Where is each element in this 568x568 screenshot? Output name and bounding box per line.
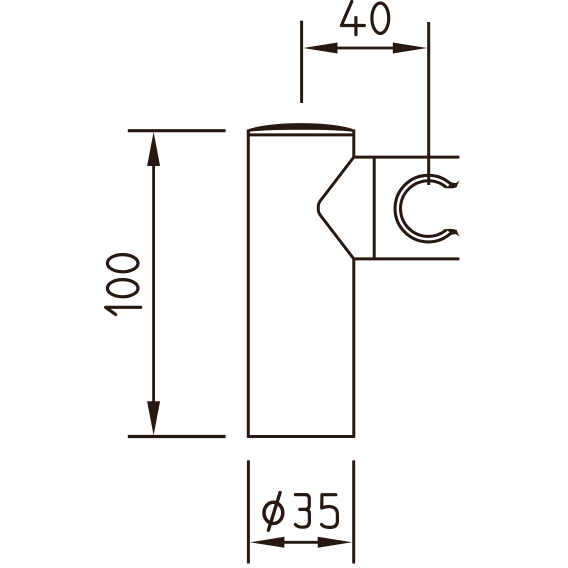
digit 4 of 40 [341,2,364,35]
digit 0 of 40 [372,3,389,33]
bracket bottom line [354,257,460,260]
second digit 0 of 100 [107,255,138,272]
C-clip outer arc [395,175,451,242]
dim 35 left extension line [247,460,250,563]
dim 40 left extension line (body axis) [300,21,303,103]
dim 100 top arrowhead [147,132,160,166]
dim 100 dimension line [152,165,155,403]
dim 40 right arrowhead [393,43,427,54]
text 40 label [341,2,388,35]
C-clip lower hook [445,229,460,237]
bracket inner vertical line [373,157,376,259]
dim 40 dimension line [336,47,394,50]
text 100 label (rotated) [106,255,141,315]
dim 35 right arrowhead [318,537,352,548]
C-clip inner arc [401,181,447,237]
dim 40 right extension line (clip axis) [427,22,430,185]
dim 35 left arrowhead [250,537,284,548]
body top rim line [249,133,352,136]
body right edge upper segment [352,130,355,158]
dim 40 left arrowhead [303,43,337,54]
bracket chamfer point [318,157,354,259]
dim 100 bottom arrowhead [147,401,160,435]
first digit 0 of 100 [107,280,138,297]
phi slash [268,493,280,531]
body right edge lower segment [352,259,355,437]
digit 1 of 100 [106,307,141,314]
C-clip upper hook [445,180,460,188]
text diameter 35 label [264,493,337,531]
digit 5 [322,495,338,528]
body bottom edge [247,435,355,438]
phi symbol [264,502,283,523]
dim 35 right extension line [352,460,355,563]
dim 100 top extension line [128,129,226,132]
dim 35 dimension line [283,541,319,544]
digit 3 [295,495,309,528]
body left edge [247,130,250,437]
dim 100 bottom extension line [128,435,226,438]
bracket top line [354,156,460,159]
body top lid arc [248,124,354,130]
